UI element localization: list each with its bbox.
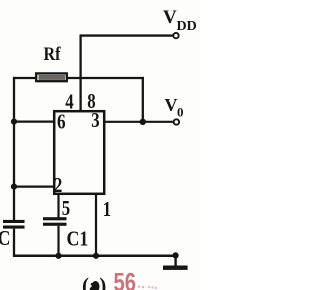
svg-text:V: V bbox=[163, 7, 177, 28]
capacitor C bbox=[3, 220, 25, 229]
svg-text:4: 4 bbox=[65, 91, 74, 114]
wire left lead of Rf bbox=[13, 77, 36, 79]
ground bbox=[163, 255, 188, 270]
wire C1 to ground rail bbox=[57, 226, 59, 257]
wire feedback vertical to output node bbox=[142, 77, 144, 122]
svg-text:0: 0 bbox=[177, 105, 184, 120]
watermark trailing dots bbox=[138, 285, 157, 289]
label VDD bbox=[163, 7, 197, 34]
IC U1 555 timer box bbox=[54, 111, 104, 194]
label V0 bbox=[165, 95, 184, 120]
wire pin 6 to left rail bbox=[14, 120, 55, 122]
svg-text:C1: C1 bbox=[67, 228, 89, 251]
node junction at rail / pin2 bbox=[11, 184, 17, 190]
wire pin 5 down bbox=[57, 193, 59, 218]
svg-text:DD: DD bbox=[177, 19, 197, 34]
svg-text:V: V bbox=[165, 95, 178, 115]
resistor Rf bbox=[36, 73, 67, 81]
caption (a) bbox=[82, 274, 106, 290]
svg-text:5: 5 bbox=[62, 197, 70, 220]
wire ground rail bottom bbox=[13, 255, 176, 258]
node junction output / feedback bbox=[140, 119, 146, 125]
svg-text:56: 56 bbox=[114, 268, 137, 290]
wire pin 1 down to ground rail bbox=[95, 193, 97, 257]
wire right lead of Rf to feedback corner bbox=[68, 77, 144, 79]
svg-text:C: C bbox=[0, 228, 10, 251]
capacitor C1 bbox=[43, 217, 67, 226]
svg-text:1: 1 bbox=[103, 198, 111, 221]
wire C to ground rail bbox=[13, 229, 15, 257]
wire VDD rail top bbox=[80, 34, 173, 36]
node junction at rail / pin6 bbox=[11, 119, 17, 125]
svg-text:3: 3 bbox=[91, 110, 99, 133]
svg-text:6: 6 bbox=[57, 111, 66, 134]
wire pin 2 to left rail bbox=[14, 186, 55, 188]
node junction pin1 / ground rail bbox=[93, 253, 99, 259]
wire left rail bbox=[13, 77, 15, 221]
node V0 terminal bbox=[174, 119, 179, 124]
svg-text:Rf: Rf bbox=[44, 43, 62, 65]
wire pin 3 output bbox=[104, 121, 173, 123]
wire VDD drop to pins 4 and 8 bbox=[79, 35, 81, 112]
node junction C1 / ground rail bbox=[55, 253, 61, 259]
node VDD terminal bbox=[173, 33, 178, 38]
node junction ground symbol bbox=[173, 252, 179, 258]
